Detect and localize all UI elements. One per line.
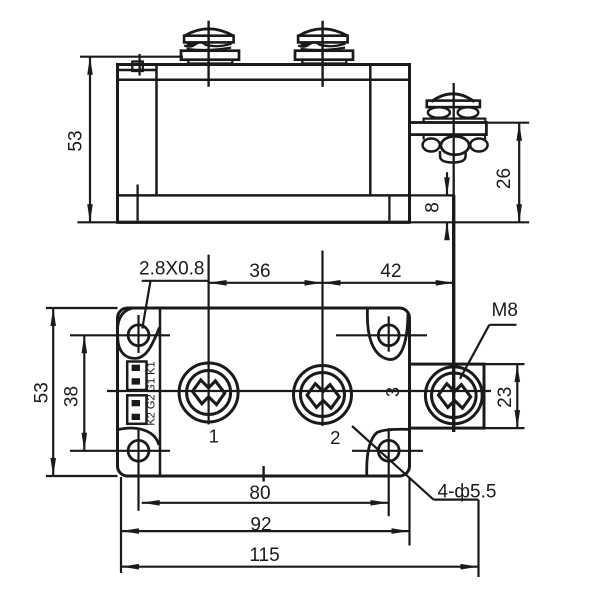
- dimension 80: [142, 502, 389, 504]
- svg-text:80: 80: [249, 483, 270, 504]
- body outline: [118, 308, 410, 476]
- dimension 36: [209, 282, 323, 284]
- svg-text:92: 92: [250, 514, 271, 535]
- dimension 26: [485, 123, 529, 223]
- control terminal box K2/G2: [127, 395, 146, 424]
- svg-text:2: 2: [330, 427, 340, 448]
- svg-text:G1 K1: G1 K1: [145, 361, 157, 392]
- side terminal 3 assembly (right): [410, 94, 488, 163]
- svg-text:2.8X0.8: 2.8X0.8: [139, 259, 205, 280]
- dimension 8: [410, 172, 454, 237]
- svg-text:42: 42: [380, 261, 401, 282]
- inner vertical line of control strip: [159, 308, 162, 476]
- long centerline of terminal 3 / M8: [453, 83, 455, 195]
- top-left inner ledge line: [118, 69, 157, 71]
- svg-text:38: 38: [62, 386, 83, 407]
- main horizontal centerline: [107, 390, 491, 392]
- dimension 42: [323, 282, 454, 284]
- svg-text:8: 8: [423, 202, 444, 213]
- ear bottom-left: [118, 428, 159, 445]
- right mounting hole centerline in base: [388, 195, 390, 220]
- ear bottom-right: [367, 429, 410, 476]
- terminal tab plate: [410, 123, 487, 135]
- mounting hole bottom-right: [352, 428, 423, 516]
- svg-text:26: 26: [494, 168, 515, 189]
- left step vertical: [155, 65, 158, 196]
- base plate top line: [118, 194, 410, 197]
- svg-text:1: 1: [209, 426, 219, 447]
- ear top-left: [117, 308, 159, 358]
- center mark on bottom edge: [262, 466, 264, 482]
- svg-text:3: 3: [383, 387, 403, 397]
- svg-text:53: 53: [66, 130, 87, 151]
- nut ellipses below tab: [423, 139, 440, 152]
- dome head: [431, 94, 474, 102]
- mounting hole bottom-left: [70, 429, 170, 511]
- small indicator tab on top left: [132, 62, 143, 72]
- thin plate: [424, 119, 486, 123]
- mounting hole top-left: [70, 315, 170, 353]
- screw terminal 2 (side view): [295, 21, 353, 87]
- power terminal 1: [179, 255, 238, 425]
- svg-text:M8: M8: [492, 300, 518, 321]
- control terminal box K1/G1: [127, 362, 146, 391]
- bottom line of base (body bottom edge): [118, 221, 410, 224]
- spring washer loops: [428, 107, 450, 118]
- svg-text:23: 23: [495, 387, 516, 408]
- head washer rect: [427, 101, 480, 108]
- module body outline: [118, 65, 410, 223]
- dimension 23: [484, 364, 525, 428]
- svg-text:36: 36: [249, 261, 270, 282]
- left mounting hole centerline in base: [136, 185, 138, 221]
- dimension 53 (bottom view): [46, 308, 118, 476]
- power terminal 2: [294, 251, 352, 427]
- side tab in plan view: [410, 364, 485, 428]
- svg-text:K2 G2: K2 G2: [145, 394, 157, 425]
- top face rim line: [118, 78, 410, 81]
- dimension 115: [121, 500, 479, 577]
- dimension 92: [121, 477, 410, 573]
- screw end cup: [440, 151, 466, 163]
- M8 power terminal 3: [425, 367, 482, 424]
- dimension 53 (side view): [77, 57, 183, 223]
- screw terminal 1 (side view): [181, 21, 239, 87]
- svg-text:115: 115: [249, 545, 279, 566]
- ear top-right: [367, 309, 408, 360]
- base bottom extension to right: [410, 221, 530, 223]
- mounting hole top-right: [336, 316, 427, 351]
- svg-text:53: 53: [32, 382, 53, 403]
- dimension 38: [83, 335, 85, 451]
- right step vertical: [369, 65, 372, 196]
- tab-to-nut connectors: [423, 135, 425, 140]
